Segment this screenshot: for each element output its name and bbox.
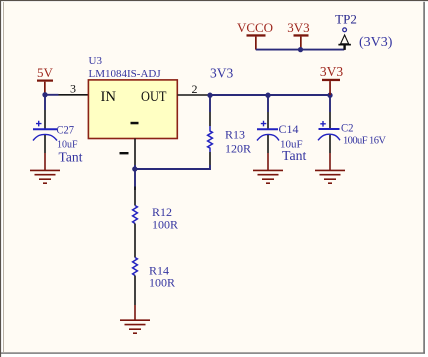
capacitor C2 [318, 95, 386, 153]
svg-text:100R: 100R [152, 218, 178, 232]
svg-text:Tant: Tant [59, 150, 83, 165]
op-amp U3 regulator body LM1084IS-ADJ [88, 55, 177, 139]
svg-text:IN: IN [101, 89, 117, 105]
svg-text:3V3: 3V3 [287, 20, 309, 35]
power port 5V [37, 65, 54, 95]
svg-text:U3: U3 [89, 55, 103, 67]
svg-text:C2: C2 [341, 121, 354, 135]
wire 5V to pin3 [45, 94, 59, 96]
svg-text:C27: C27 [57, 125, 75, 137]
pin 3 of U3 [59, 82, 89, 96]
svg-text:C14: C14 [279, 122, 299, 136]
resistor R13 [208, 95, 251, 165]
power port 3V3 (top) [287, 20, 309, 50]
pin 1 (adj) of U3 [120, 139, 136, 166]
svg-text:VCCO: VCCO [237, 20, 273, 35]
capacitor C27 [33, 110, 83, 165]
ground bottom [120, 305, 150, 333]
ground below C2 [315, 153, 345, 183]
svg-text:TP2: TP2 [335, 12, 357, 27]
junction node 5V rail [42, 92, 47, 97]
svg-text:LM1084IS-ADJ: LM1084IS-ADJ [89, 68, 162, 80]
junction node C2 [327, 93, 332, 98]
svg-text:3V3: 3V3 [320, 64, 343, 79]
resistor R14 [133, 245, 175, 305]
svg-text:100R: 100R [149, 276, 175, 290]
ground below C14 [253, 153, 283, 183]
capacitor C14 [257, 95, 306, 163]
junction node pin2/R13 [207, 93, 212, 98]
svg-text:R13: R13 [225, 128, 245, 142]
svg-text:OUT: OUT [141, 89, 167, 105]
test point TP2 [335, 12, 357, 50]
svg-text:3V3: 3V3 [210, 66, 233, 81]
svg-text:2: 2 [192, 82, 198, 96]
wire 5V down to C27 [44, 95, 46, 110]
wire top rail [256, 49, 344, 51]
svg-text:10uF: 10uF [57, 139, 78, 151]
svg-text:100uF 16V: 100uF 16V [343, 136, 386, 147]
svg-text:Tant: Tant [282, 148, 306, 163]
wire output rail 3V3 [208, 94, 331, 96]
power port VCCO [237, 20, 273, 50]
svg-text:3: 3 [70, 82, 76, 96]
svg-text:5V: 5V [37, 65, 54, 80]
pin 2 of U3 [178, 82, 208, 96]
wire adj pin to node [134, 165, 136, 190]
ground below C27 [30, 153, 60, 183]
wire R13 bottom to adj node [135, 165, 210, 169]
junction node adj [132, 166, 137, 171]
svg-text:120R: 120R [225, 142, 251, 156]
power port 3V3 (right) [320, 64, 343, 95]
resistor R12 [133, 187, 178, 246]
svg-text:(3V3): (3V3) [359, 35, 393, 50]
junction node C14 [265, 93, 270, 98]
junction top rail [298, 47, 303, 52]
